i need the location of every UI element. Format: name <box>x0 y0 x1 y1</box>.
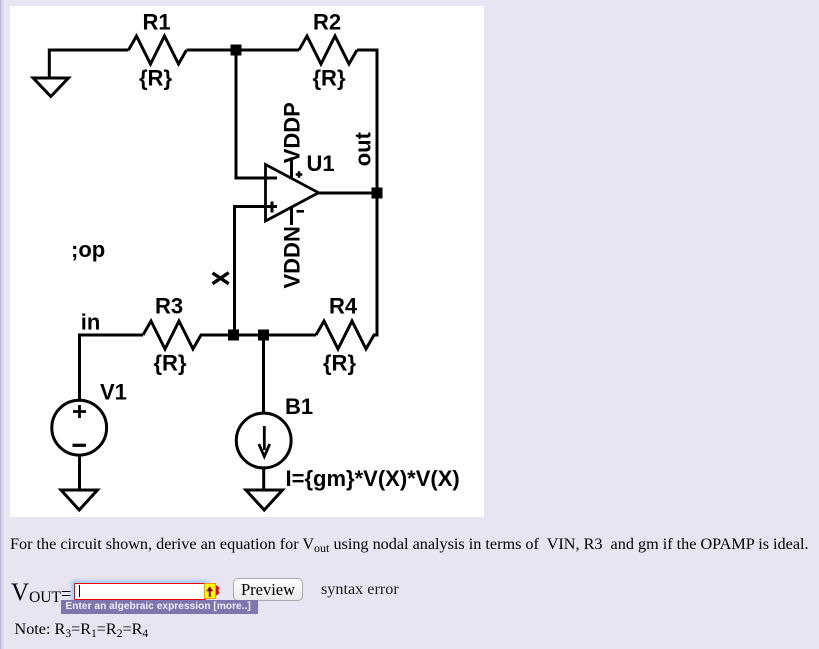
svg-text:in: in <box>81 310 101 335</box>
svg-text:B1: B1 <box>285 394 313 419</box>
svg-text:V1: V1 <box>100 380 127 405</box>
svg-text:{R}: {R} <box>139 66 172 91</box>
svg-text:;op: ;op <box>71 237 105 262</box>
svg-text:{R}: {R} <box>154 351 187 376</box>
svg-text:R4: R4 <box>329 294 358 319</box>
svg-text:{R}: {R} <box>313 66 346 91</box>
svg-text:VDDN: VDDN <box>280 226 305 288</box>
svg-text:I={gm}*V(X)*V(X): I={gm}*V(X)*V(X) <box>286 466 460 491</box>
svg-text:R3: R3 <box>155 294 183 319</box>
svg-text:VDDP: VDDP <box>280 102 305 163</box>
svg-text:R1: R1 <box>143 10 171 35</box>
svg-text:R2: R2 <box>313 10 341 35</box>
svg-text:out: out <box>351 131 376 166</box>
svg-text:U1: U1 <box>307 151 335 176</box>
svg-text:{R}: {R} <box>323 351 356 376</box>
